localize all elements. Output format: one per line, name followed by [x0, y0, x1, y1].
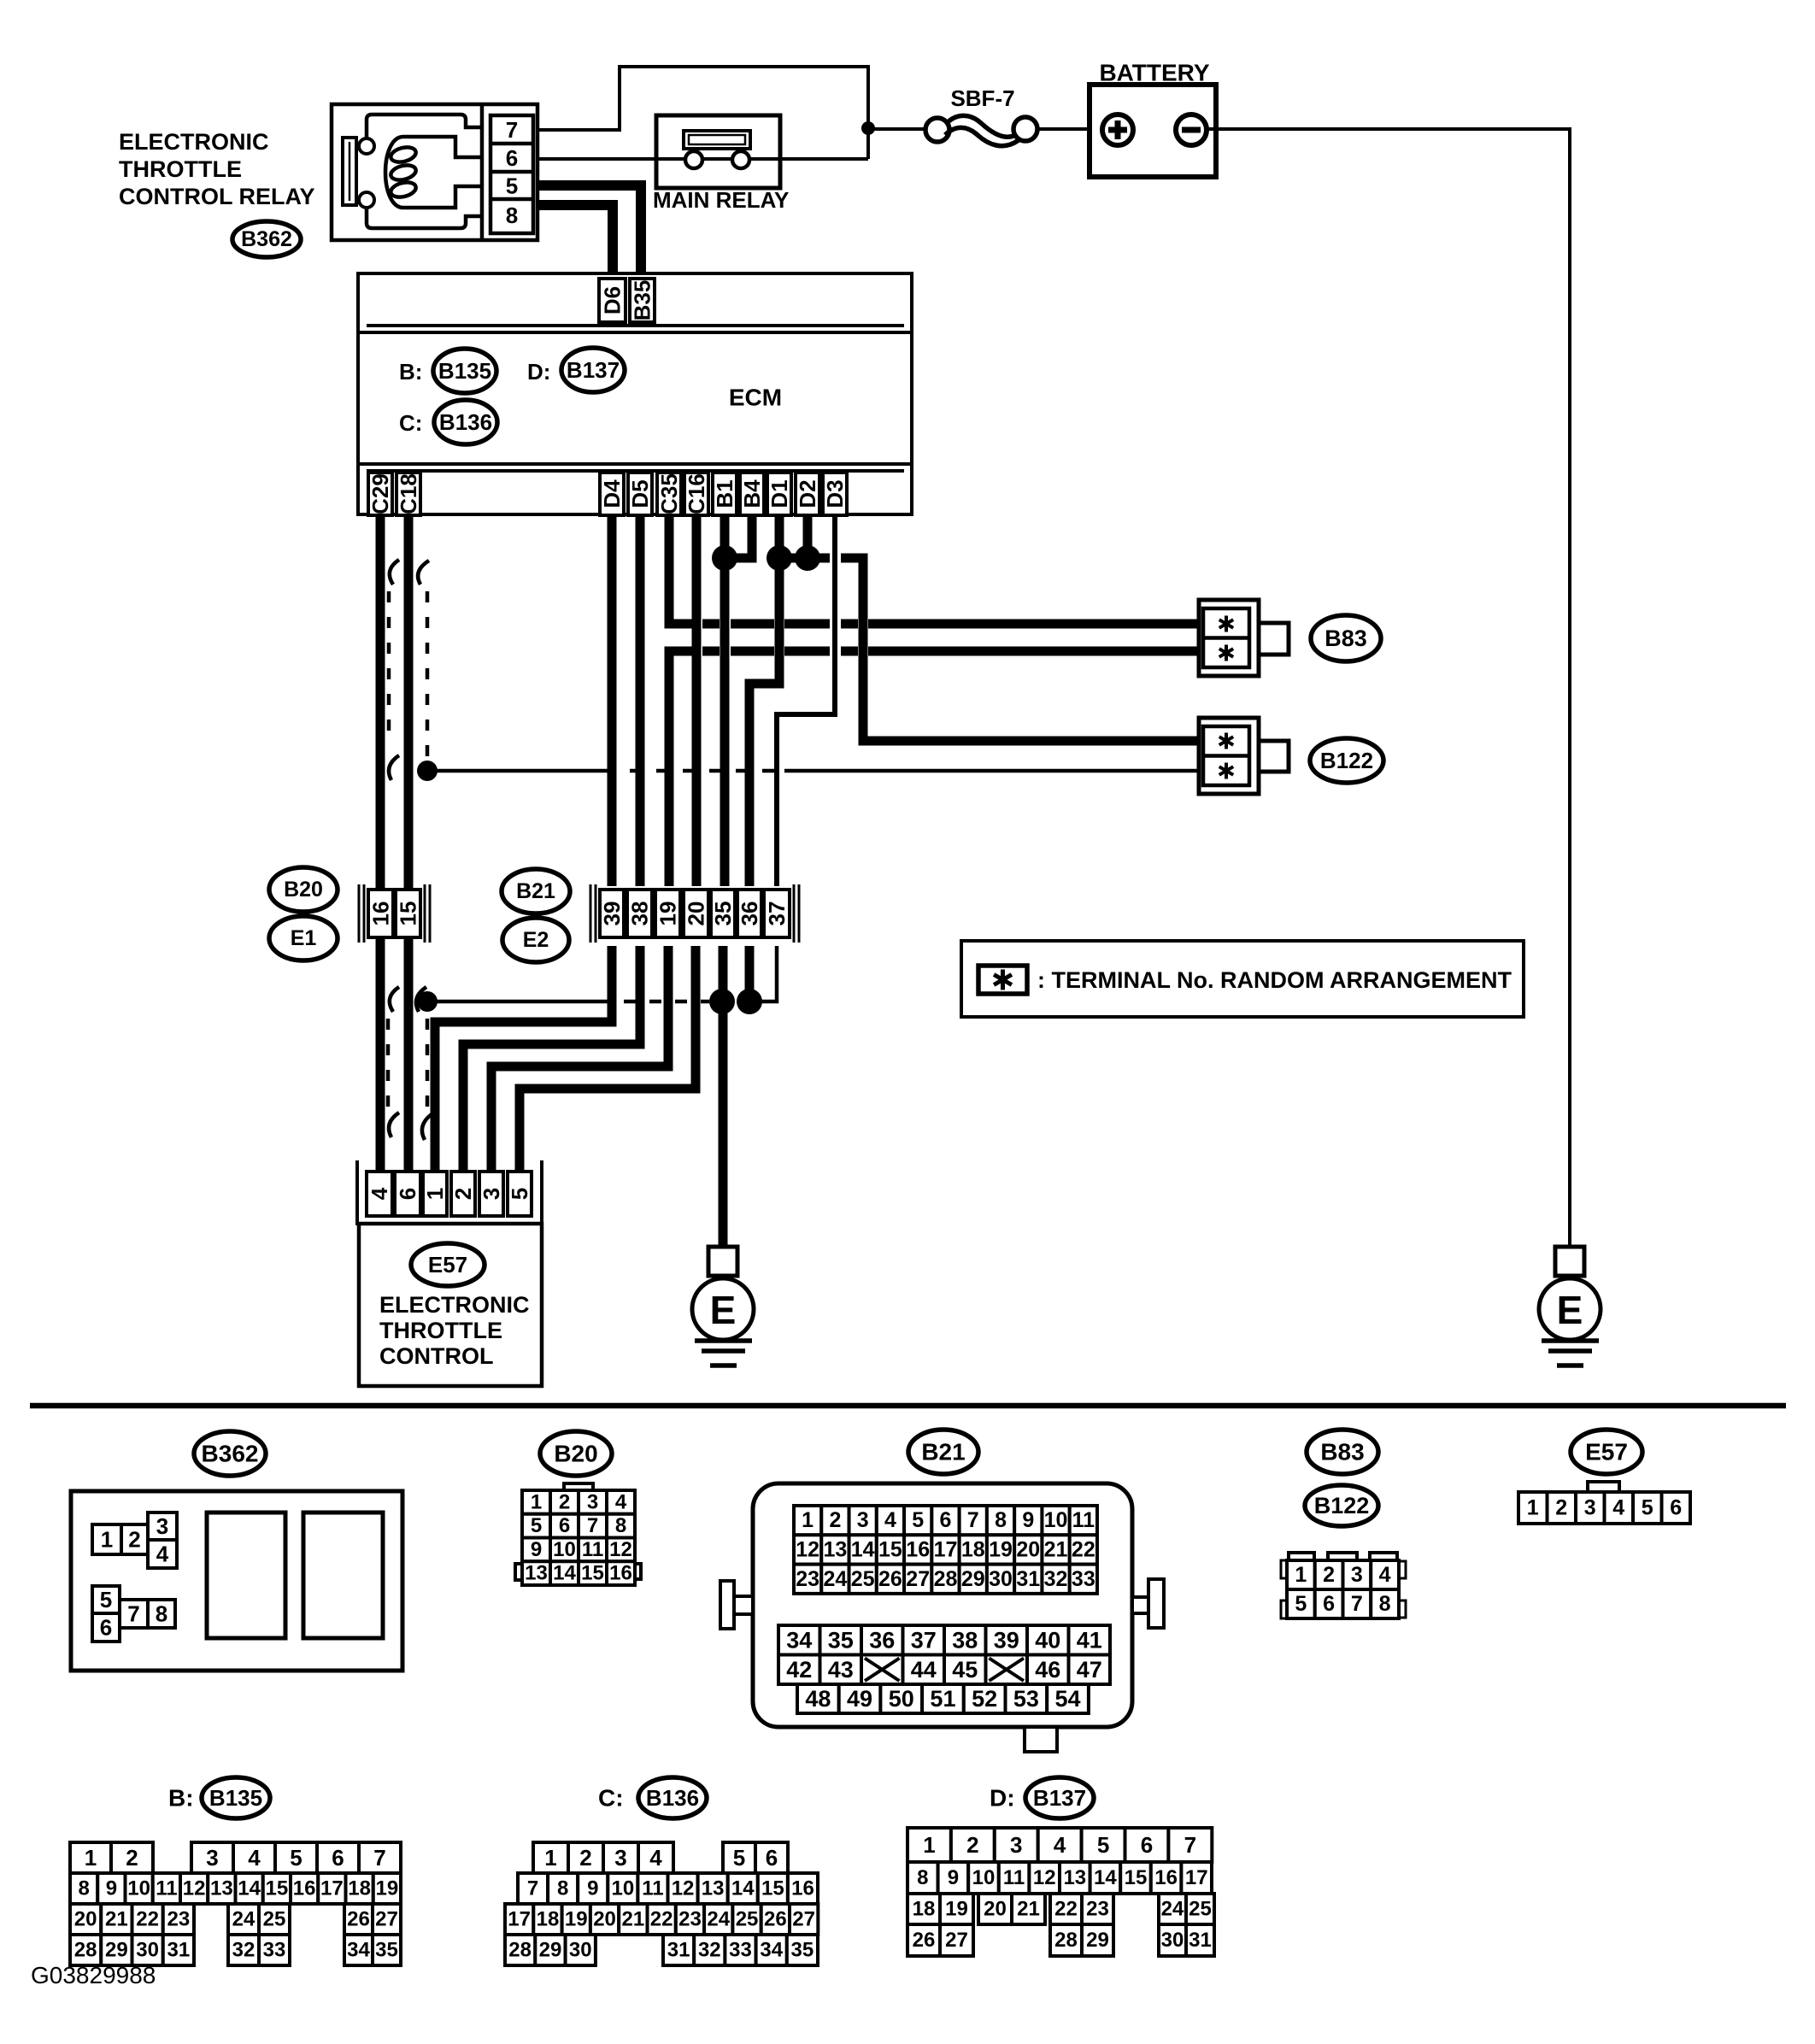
svg-text:2: 2 — [1323, 1563, 1335, 1587]
svg-text:7: 7 — [127, 1601, 139, 1627]
svg-text:CONTROL: CONTROL — [379, 1343, 493, 1369]
svg-text:8: 8 — [995, 1508, 1007, 1532]
connector ref B21 — [502, 869, 570, 913]
svg-text:9: 9 — [587, 1877, 598, 1900]
pinout label C: B136 — [598, 1785, 624, 1812]
wire: node to fuse — [868, 127, 926, 131]
svg-text:23: 23 — [796, 1567, 819, 1591]
svg-text:5: 5 — [1295, 1592, 1307, 1616]
wire B4 joins B1 — [735, 515, 752, 558]
svg-text:21: 21 — [105, 1908, 128, 1931]
svg-text:4: 4 — [649, 1845, 662, 1871]
svg-text:32: 32 — [1044, 1567, 1068, 1591]
svg-text:1: 1 — [1295, 1563, 1307, 1587]
wire E2 pin19 to E57 pin3 — [491, 946, 668, 1172]
svg-text:31: 31 — [1189, 1929, 1212, 1952]
svg-text:5: 5 — [507, 1188, 532, 1200]
svg-text:4: 4 — [248, 1845, 261, 1871]
svg-text:24: 24 — [1161, 1898, 1184, 1921]
svg-text:24: 24 — [232, 1908, 256, 1931]
svg-text:27: 27 — [375, 1908, 398, 1931]
svg-text:16: 16 — [791, 1877, 814, 1900]
svg-text:13: 13 — [210, 1877, 233, 1900]
svg-text:18: 18 — [961, 1537, 985, 1561]
connector B83 (2-pin, random arrangement) — [1199, 600, 1289, 676]
connector ref E2 — [502, 918, 569, 962]
wire D2 to B122 pin (upper) — [779, 515, 1199, 741]
svg-text:B21: B21 — [921, 1439, 965, 1465]
connector block B21/E2 pins 39 38 19 20 35 36 37 — [590, 884, 799, 943]
svg-text:15: 15 — [761, 1877, 784, 1900]
shield (dashed) around C29 wire upper — [389, 560, 399, 780]
wire D5 to E2 pin38 — [636, 515, 645, 886]
svg-text:E57: E57 — [1585, 1439, 1628, 1465]
svg-text:7: 7 — [373, 1845, 385, 1871]
svg-text:12: 12 — [672, 1877, 695, 1900]
svg-text:40: 40 — [1035, 1627, 1060, 1653]
svg-text:14: 14 — [553, 1562, 576, 1585]
svg-text:C:: C: — [598, 1785, 624, 1812]
ECM top pins D6 B35 — [599, 279, 655, 322]
svg-text:17: 17 — [508, 1908, 531, 1931]
svg-text:6: 6 — [395, 1188, 420, 1200]
svg-text:E1: E1 — [291, 926, 317, 950]
svg-text:C16: C16 — [684, 473, 709, 514]
svg-text:15: 15 — [266, 1877, 289, 1900]
svg-text:9: 9 — [531, 1538, 542, 1561]
svg-text:22: 22 — [1072, 1537, 1095, 1561]
relay B362 pin column: pins 7 6 5 8 — [490, 115, 533, 233]
shield (dashed) lower left — [388, 987, 399, 1137]
svg-text:B136: B136 — [646, 1785, 699, 1811]
svg-text:18: 18 — [348, 1877, 371, 1900]
svg-text:43: 43 — [828, 1657, 854, 1683]
svg-text:7: 7 — [1184, 1832, 1196, 1858]
svg-text:32: 32 — [698, 1939, 721, 1962]
svg-text:8: 8 — [1379, 1592, 1391, 1616]
svg-text:20: 20 — [1016, 1537, 1040, 1561]
svg-text:10: 10 — [611, 1877, 634, 1900]
svg-text:20: 20 — [74, 1908, 97, 1931]
svg-text:46: 46 — [1035, 1657, 1060, 1683]
wire E2 pin20 to E57 pin5 — [520, 946, 696, 1172]
svg-text:1: 1 — [544, 1845, 556, 1871]
pinout: B21 connector face — [720, 1483, 1164, 1752]
svg-text:8: 8 — [506, 203, 518, 228]
svg-text:19: 19 — [376, 1877, 399, 1900]
svg-text:8: 8 — [615, 1514, 626, 1537]
svg-text:ELECTRONIC: ELECTRONIC — [379, 1292, 530, 1318]
svg-text:28: 28 — [934, 1567, 958, 1591]
ECM connector ref B136 — [434, 400, 497, 444]
svg-text:24: 24 — [823, 1567, 847, 1591]
svg-text:36: 36 — [737, 902, 762, 926]
svg-text:38: 38 — [627, 902, 653, 926]
svg-text:B122: B122 — [1320, 748, 1373, 773]
svg-text:6: 6 — [506, 145, 518, 171]
svg-text:48: 48 — [805, 1686, 831, 1712]
svg-text:25: 25 — [851, 1567, 875, 1591]
svg-text:26: 26 — [878, 1567, 902, 1591]
svg-text:D3: D3 — [822, 479, 848, 508]
svg-text:C35: C35 — [656, 473, 682, 514]
svg-text:35: 35 — [828, 1627, 854, 1653]
connector ref E57 — [411, 1243, 485, 1286]
connector ref B20 — [269, 867, 338, 912]
svg-text:5: 5 — [1097, 1832, 1109, 1858]
svg-text:5: 5 — [531, 1514, 542, 1537]
svg-text:31: 31 — [1016, 1567, 1040, 1591]
svg-text:BATTERY: BATTERY — [1099, 60, 1209, 86]
pinout label B362 — [194, 1431, 266, 1476]
svg-text:30: 30 — [989, 1567, 1013, 1591]
svg-text:18: 18 — [913, 1898, 936, 1921]
pinout label E57 — [1571, 1430, 1642, 1474]
svg-text:2: 2 — [126, 1845, 138, 1871]
svg-text:3: 3 — [1351, 1563, 1363, 1587]
pinout label B20 — [540, 1431, 612, 1476]
svg-text:12: 12 — [609, 1538, 632, 1561]
connector E57 pins 4 6 1 2 3 5 — [357, 1160, 542, 1225]
svg-text:13: 13 — [1063, 1866, 1086, 1889]
svg-text:E: E — [1557, 1288, 1583, 1332]
svg-text:D1: D1 — [767, 479, 792, 508]
svg-text:14: 14 — [851, 1537, 875, 1561]
section divider line — [30, 1403, 1786, 1409]
fuse SBF-7 — [925, 85, 1037, 146]
svg-text:21: 21 — [621, 1908, 644, 1931]
svg-text:34: 34 — [760, 1939, 783, 1962]
svg-text:E2: E2 — [523, 928, 549, 952]
svg-text:29: 29 — [105, 1939, 128, 1962]
svg-text:2: 2 — [1555, 1496, 1567, 1520]
svg-text:THROTTLE: THROTTLE — [119, 156, 242, 182]
svg-text:: TERMINAL No. RANDOM ARRANGEM: : TERMINAL No. RANDOM ARRANGEMENT — [1037, 967, 1512, 993]
svg-text:45: 45 — [952, 1657, 978, 1683]
svg-text:21: 21 — [1017, 1898, 1040, 1921]
shield drain line to B122 pin (lower, thin) — [427, 769, 1199, 773]
svg-text:6: 6 — [1141, 1832, 1153, 1858]
svg-text:7: 7 — [587, 1514, 598, 1537]
svg-text:1: 1 — [531, 1490, 542, 1513]
svg-text:2: 2 — [829, 1508, 841, 1532]
svg-text:31: 31 — [167, 1939, 191, 1962]
wire C16 to E2 pin20 — [692, 515, 702, 886]
svg-text:37: 37 — [911, 1627, 937, 1653]
shield (dashed) lower right with drain dot — [416, 987, 432, 1140]
svg-text:33: 33 — [1072, 1567, 1095, 1591]
pinout label D: B137 — [990, 1785, 1015, 1812]
shield drain dot lower — [417, 991, 438, 1012]
junction dots ground net — [709, 989, 762, 1014]
wire E2 pin37 to ground junction (thin) — [761, 946, 777, 1001]
svg-text:35: 35 — [791, 1939, 814, 1962]
svg-text:3: 3 — [479, 1188, 504, 1200]
svg-text:26: 26 — [347, 1908, 370, 1931]
svg-text:6: 6 — [100, 1615, 112, 1641]
svg-text:13: 13 — [823, 1537, 847, 1561]
wire E1 pin16 to E57 pin4 — [376, 939, 385, 1172]
svg-text:2: 2 — [450, 1188, 476, 1200]
svg-text:13: 13 — [525, 1562, 548, 1585]
svg-text:12: 12 — [796, 1537, 819, 1561]
svg-text:25: 25 — [263, 1908, 286, 1931]
svg-text:16: 16 — [368, 902, 394, 926]
svg-text:53: 53 — [1013, 1686, 1039, 1712]
svg-text:B83: B83 — [1325, 626, 1367, 651]
svg-text:B4: B4 — [739, 479, 765, 508]
pinout label B: B135 — [168, 1785, 194, 1812]
svg-text:12: 12 — [1033, 1866, 1056, 1889]
svg-text:14: 14 — [1094, 1866, 1117, 1889]
svg-text:1: 1 — [101, 1527, 113, 1553]
pinout label B122 — [1305, 1485, 1378, 1526]
svg-text:11: 11 — [1003, 1866, 1025, 1889]
wire D1 to E2 pin36 — [749, 515, 779, 886]
svg-text:1: 1 — [802, 1508, 814, 1532]
connector B122 (2-pin, random arrangement) — [1199, 718, 1289, 794]
svg-text:B20: B20 — [284, 878, 323, 902]
connector ref B83 — [1311, 615, 1381, 661]
svg-text:24: 24 — [707, 1908, 730, 1931]
svg-text:7: 7 — [527, 1877, 538, 1900]
svg-text:D5: D5 — [627, 479, 653, 508]
label: ELECTRONIC THROTTLE CONTROL RELAY — [119, 129, 315, 209]
svg-text:E57: E57 — [428, 1252, 467, 1277]
wire D4 to E2 pin39 — [608, 515, 617, 886]
pinout: B136 ECM connector face — [505, 1842, 818, 1965]
junction dot B1/B4 — [712, 545, 737, 571]
svg-text:37: 37 — [764, 902, 790, 926]
svg-text:11: 11 — [1072, 1508, 1095, 1532]
svg-text:16: 16 — [293, 1877, 316, 1900]
svg-text:6: 6 — [1670, 1496, 1682, 1520]
svg-text:B35: B35 — [630, 280, 655, 321]
svg-text:D:: D: — [990, 1785, 1015, 1812]
svg-text:B135: B135 — [438, 358, 491, 384]
svg-text:B137: B137 — [1033, 1785, 1086, 1811]
svg-text:34: 34 — [347, 1939, 370, 1962]
svg-text:1: 1 — [85, 1845, 97, 1871]
ground E (right) — [1539, 1247, 1601, 1366]
svg-text:25: 25 — [736, 1908, 759, 1931]
svg-text:15: 15 — [878, 1537, 902, 1561]
pinout: B362 relay connector face — [71, 1491, 402, 1671]
svg-text:47: 47 — [1077, 1657, 1102, 1683]
svg-text:41: 41 — [1077, 1627, 1102, 1653]
svg-text:18: 18 — [537, 1908, 560, 1931]
svg-text:33: 33 — [729, 1939, 752, 1962]
svg-text:17: 17 — [320, 1877, 344, 1900]
svg-text:27: 27 — [945, 1929, 968, 1952]
pinout: B137 ECM connector face — [907, 1828, 1214, 1956]
svg-text:10: 10 — [127, 1877, 150, 1900]
ground E (left) — [692, 1247, 754, 1366]
svg-text:3: 3 — [206, 1845, 218, 1871]
junction dot D1 — [767, 545, 792, 571]
svg-text:52: 52 — [972, 1686, 997, 1712]
svg-text:B136: B136 — [439, 409, 492, 435]
svg-text:27: 27 — [792, 1908, 815, 1931]
ECM bottom pins C29 C18 D4 D5 C35 C16 B1 B4 D1 D2 D3 — [367, 473, 848, 515]
BATTERY — [1090, 60, 1216, 178]
wire C18 to E1 pin15 — [404, 515, 414, 888]
pinout: B135 ECM connector face — [70, 1842, 401, 1965]
svg-text:16: 16 — [1154, 1866, 1178, 1889]
svg-text:B362: B362 — [241, 227, 292, 251]
svg-text:B1: B1 — [712, 479, 737, 508]
wire: relay pin8 (thick) down to ECM D6 — [537, 205, 613, 282]
svg-text:14: 14 — [238, 1877, 261, 1900]
svg-text:42: 42 — [786, 1657, 812, 1683]
wire E2 pin36 to ground junction — [745, 946, 755, 1001]
svg-text:19: 19 — [945, 1898, 968, 1921]
svg-text:19: 19 — [989, 1537, 1013, 1561]
shield drain dot upper — [417, 761, 438, 781]
pinout oval B135 — [202, 1777, 270, 1818]
svg-text:50: 50 — [889, 1686, 914, 1712]
svg-text:8: 8 — [156, 1601, 167, 1627]
svg-text:36: 36 — [869, 1627, 895, 1653]
svg-text:15: 15 — [581, 1562, 604, 1585]
svg-text:15: 15 — [396, 902, 421, 926]
wire E2 pin38 to E57 pin2 — [463, 946, 640, 1172]
pinout label B83 — [1307, 1430, 1378, 1474]
svg-text:2: 2 — [966, 1832, 978, 1858]
svg-text:6: 6 — [332, 1845, 344, 1871]
svg-text:9: 9 — [1022, 1508, 1034, 1532]
pinout oval B136 — [638, 1777, 707, 1818]
svg-text:4: 4 — [1612, 1496, 1624, 1520]
pinout: E57 connector face (1x6) — [1518, 1482, 1690, 1524]
svg-text:16: 16 — [906, 1537, 930, 1561]
shield (dashed) around C18 wire upper, to shield-drain dot — [418, 561, 429, 759]
wire: relay pin5 (thick) down to ECM B35 — [537, 185, 641, 282]
svg-text:4: 4 — [1379, 1563, 1391, 1587]
svg-text:17: 17 — [1185, 1866, 1208, 1889]
svg-text:D:: D: — [527, 359, 550, 385]
svg-text:51: 51 — [930, 1686, 955, 1712]
svg-text:29: 29 — [1086, 1929, 1109, 1952]
svg-text:3: 3 — [614, 1845, 626, 1871]
svg-text:ECM: ECM — [729, 385, 782, 411]
svg-text:B362: B362 — [202, 1441, 259, 1467]
shield drain line lower to ground junction — [427, 1000, 709, 1004]
svg-text:B122: B122 — [1314, 1493, 1370, 1518]
svg-text:6: 6 — [559, 1514, 570, 1537]
svg-text:4: 4 — [884, 1508, 896, 1532]
svg-text:2: 2 — [128, 1527, 140, 1553]
svg-text:B21: B21 — [516, 879, 555, 903]
svg-text:11: 11 — [642, 1877, 663, 1900]
relay B362: ELECTRONIC THROTTLE CONTROL RELAY — [332, 104, 537, 240]
connector ref B122 — [1310, 738, 1383, 783]
svg-text:28: 28 — [508, 1939, 532, 1962]
svg-text:26: 26 — [913, 1929, 936, 1952]
wire B1 to E2 pin35 — [720, 515, 730, 886]
connector block B20/E1 pins 16 15 — [359, 884, 430, 943]
svg-text:25: 25 — [1189, 1898, 1212, 1921]
wire: battery negative to right ground — [1207, 129, 1570, 1247]
svg-text:B137: B137 — [567, 357, 620, 383]
svg-text:20: 20 — [684, 902, 709, 926]
svg-text:1: 1 — [1527, 1496, 1539, 1520]
svg-text:B135: B135 — [209, 1785, 262, 1811]
svg-text:13: 13 — [702, 1877, 725, 1900]
connector ref E1 — [269, 916, 338, 960]
wire B83 pin (lower) to E2 pin19 — [669, 651, 1199, 886]
pinout: B83/B122 connector face (2x4) — [1281, 1553, 1406, 1618]
svg-text:2: 2 — [559, 1490, 570, 1513]
svg-text:49: 49 — [847, 1686, 872, 1712]
svg-text:30: 30 — [136, 1939, 159, 1962]
svg-text:5: 5 — [912, 1508, 924, 1532]
pinout: B20 connector face (4x4) — [515, 1483, 641, 1585]
svg-text:6: 6 — [1323, 1592, 1335, 1616]
svg-text:28: 28 — [74, 1939, 97, 1962]
svg-text:23: 23 — [678, 1908, 702, 1931]
svg-text:D6: D6 — [600, 286, 626, 314]
wire E1 pin15 to E57 pin6 — [404, 939, 414, 1172]
svg-text:28: 28 — [1054, 1929, 1078, 1952]
svg-text:29: 29 — [961, 1567, 985, 1591]
junction dot D2 — [795, 545, 820, 571]
svg-text:D4: D4 — [599, 479, 625, 508]
svg-text:B:: B: — [168, 1785, 194, 1812]
svg-text:7: 7 — [967, 1508, 979, 1532]
svg-text:SBF-7: SBF-7 — [950, 85, 1014, 111]
drawing number G03829988 — [31, 1962, 156, 1988]
svg-text:22: 22 — [650, 1908, 673, 1931]
svg-text:4: 4 — [1054, 1832, 1066, 1858]
svg-text:C:: C: — [399, 410, 422, 436]
svg-text:7: 7 — [506, 117, 518, 143]
svg-text:4: 4 — [615, 1490, 627, 1513]
ECM connector ref B135 — [433, 349, 496, 393]
svg-text:33: 33 — [263, 1939, 286, 1962]
svg-text:22: 22 — [136, 1908, 159, 1931]
wire: relay pin6 through MAIN RELAY contacts to battery node — [537, 128, 868, 159]
wire D3 to E2 pin37 (thin) — [777, 515, 835, 886]
svg-text:MAIN RELAY: MAIN RELAY — [653, 187, 789, 213]
wire E2 pin35 down to ground E — [719, 946, 728, 1247]
svg-text:6: 6 — [766, 1845, 778, 1871]
svg-text:1: 1 — [923, 1832, 935, 1858]
svg-text:5: 5 — [733, 1845, 745, 1871]
svg-text:27: 27 — [906, 1567, 930, 1591]
ELECTRONIC THROTTLE CONTROL box — [359, 1224, 542, 1386]
svg-text:5: 5 — [1642, 1496, 1653, 1520]
svg-text:THROTTLE: THROTTLE — [379, 1318, 502, 1343]
legend: terminal no. random arrangement — [961, 941, 1524, 1017]
svg-text:ELECTRONIC: ELECTRONIC — [119, 129, 269, 155]
svg-text:11: 11 — [156, 1877, 177, 1900]
svg-text:11: 11 — [582, 1538, 603, 1561]
svg-text:7: 7 — [1351, 1592, 1363, 1616]
svg-text:26: 26 — [764, 1908, 787, 1931]
svg-text:5: 5 — [100, 1587, 112, 1612]
svg-text:19: 19 — [565, 1908, 588, 1931]
wire C29 to E1 pin16 — [376, 515, 385, 888]
svg-text:10: 10 — [972, 1866, 996, 1889]
svg-text:17: 17 — [934, 1537, 958, 1561]
svg-text:19: 19 — [655, 902, 681, 926]
svg-text:34: 34 — [786, 1627, 812, 1653]
svg-text:14: 14 — [731, 1877, 755, 1900]
svg-text:CONTROL RELAY: CONTROL RELAY — [119, 184, 315, 209]
svg-text:44: 44 — [911, 1657, 937, 1683]
svg-text:15: 15 — [1125, 1866, 1148, 1889]
